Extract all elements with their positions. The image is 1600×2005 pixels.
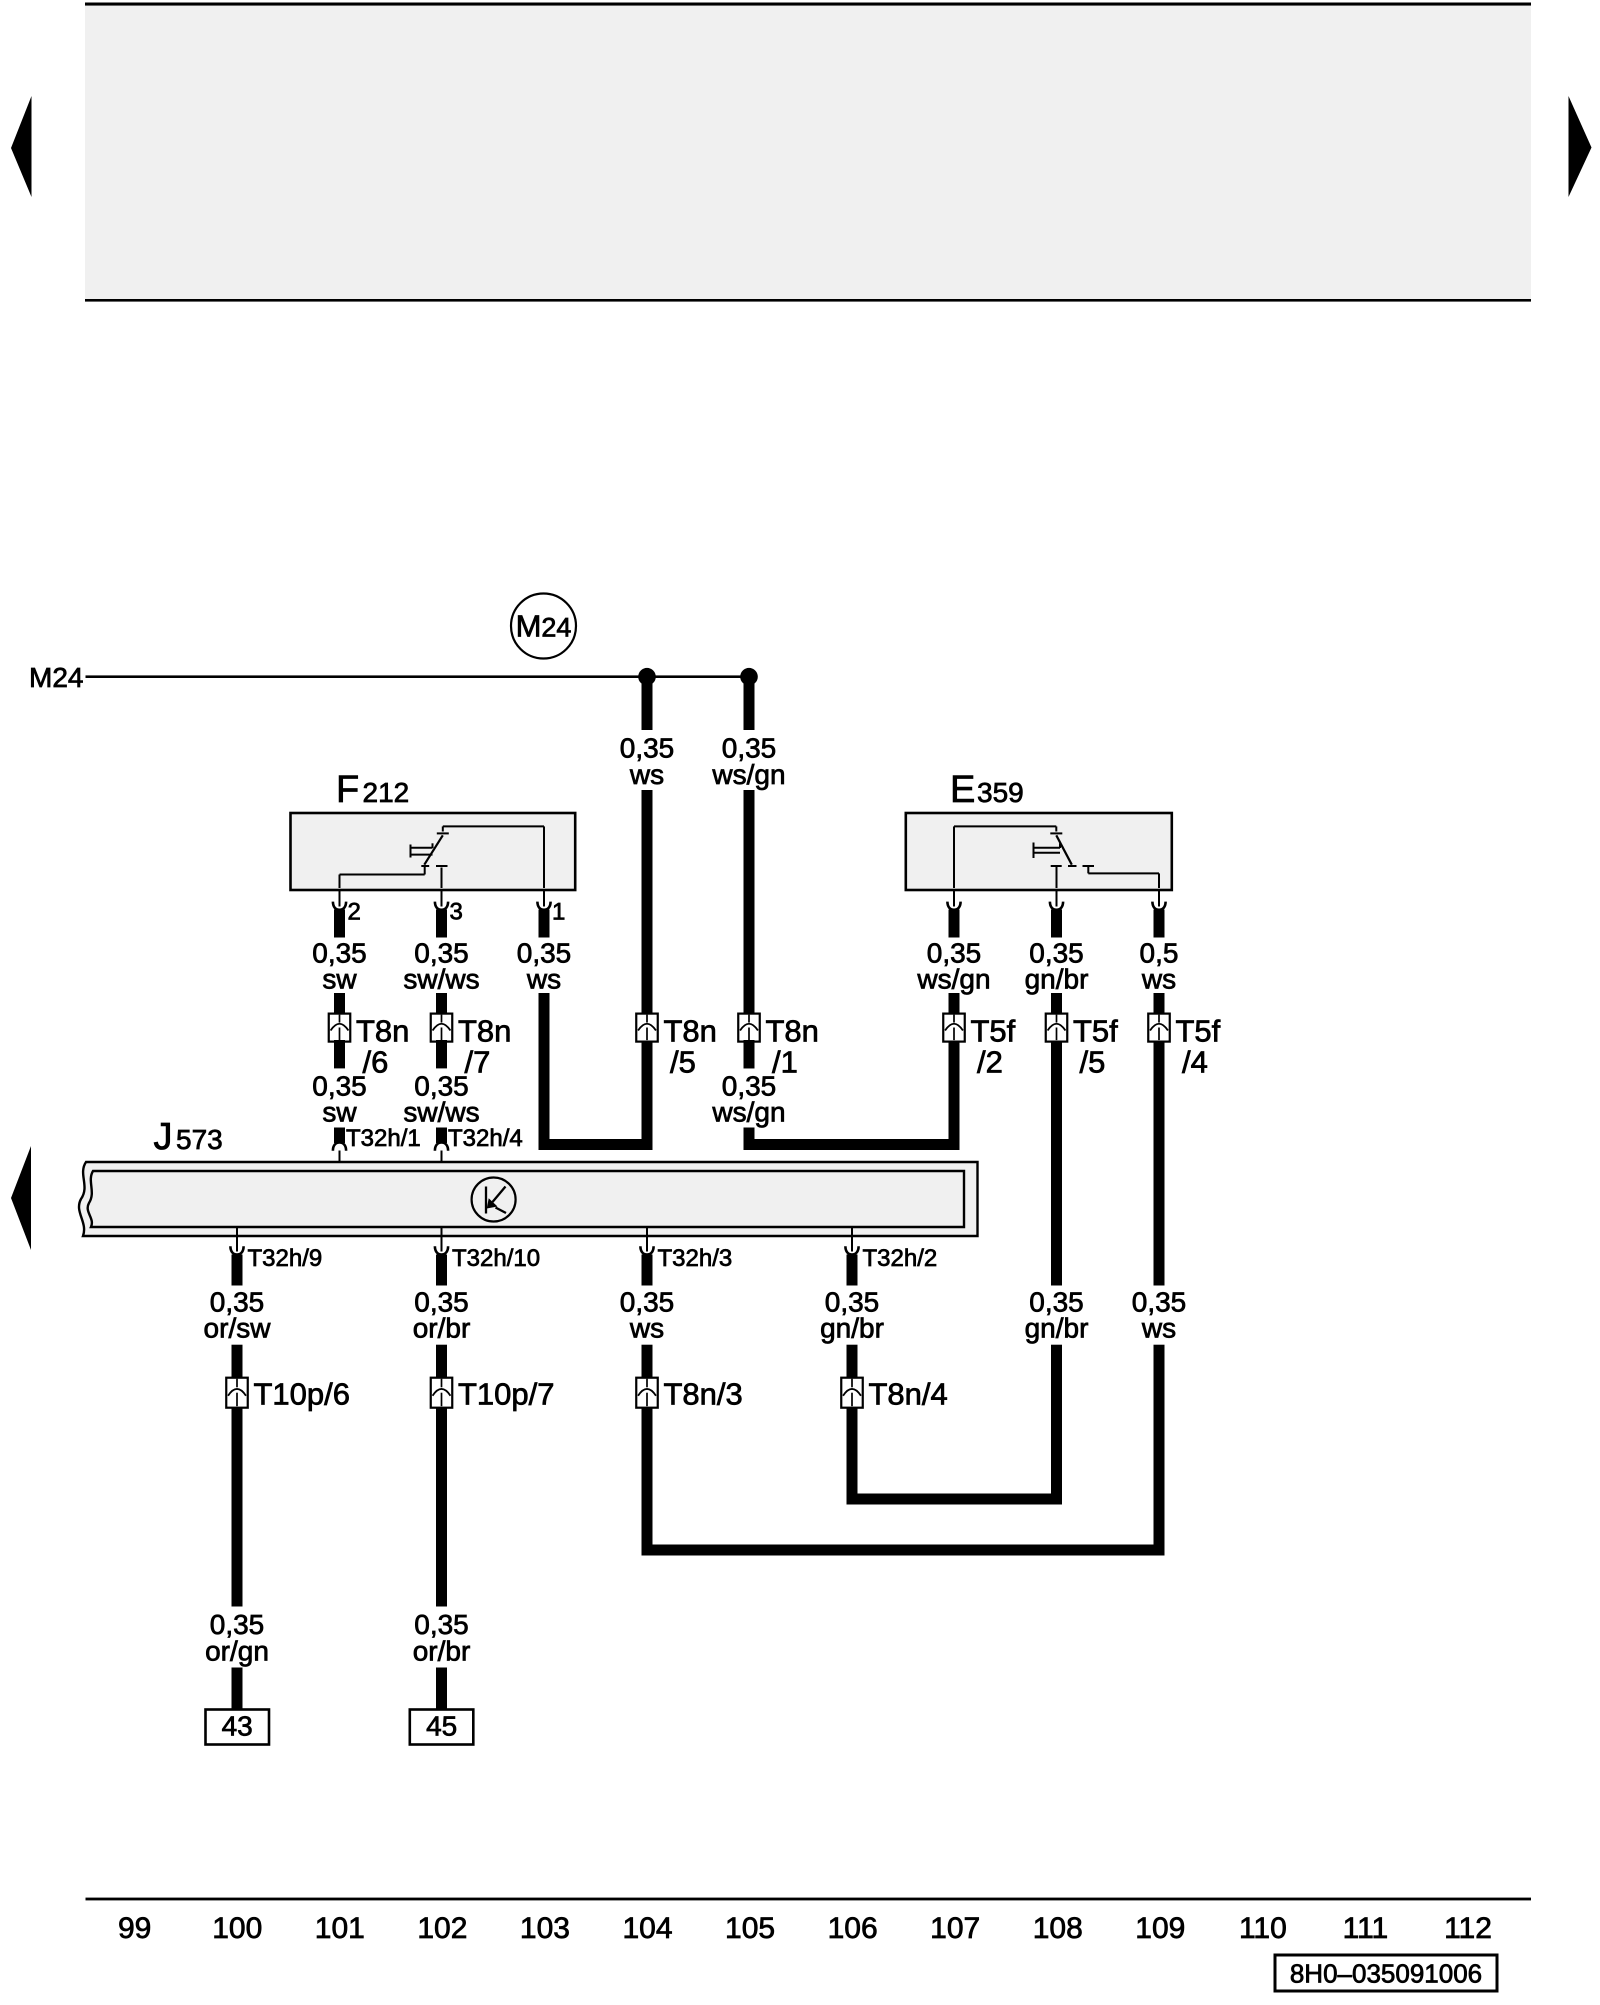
wire M24 horizontal bus — [86, 675, 750, 678]
diagram number box 8H0-035091006 — [1275, 1955, 1497, 1991]
connector T5f/5 — [1046, 1013, 1118, 1079]
wire elbow ws/gn col105-col107 — [744, 1139, 960, 1150]
svg-text:sw/ws: sw/ws — [403, 1097, 479, 1128]
page-turn arrow right (top) — [1569, 96, 1592, 197]
wire gn/br col 108 to elbow — [1051, 1345, 1062, 1505]
svg-text:/2: /2 — [977, 1044, 1003, 1079]
svg-text:ws/gn: ws/gn — [711, 1097, 785, 1128]
wire sw stub below F212/2 — [334, 910, 345, 938]
pin label T32h/10 — [452, 1245, 540, 1272]
wire gn/br to T8n/4 — [847, 1345, 858, 1378]
svg-text:1: 1 — [552, 899, 565, 926]
wire label 0,35 sw/ws (above J573) — [403, 1071, 479, 1128]
pin T32h/3 — [646, 1227, 648, 1252]
wire ws col 103 down to elbow — [539, 993, 550, 1150]
pin label T32h/9 — [248, 1245, 323, 1272]
wire label 0,35 gn/br (below J573) — [820, 1287, 884, 1344]
terminal clip at T32h/9 — [230, 1246, 243, 1254]
wire label 0,35 or/br (lower) — [413, 1609, 471, 1667]
wire ws stub below F212/1 — [539, 910, 550, 938]
wire label 0,35 ws (col 109 lower) — [1132, 1287, 1187, 1344]
terminal clip at T32h/2 — [845, 1246, 858, 1254]
svg-text:T32h/10: T32h/10 — [452, 1245, 540, 1272]
svg-text:J: J — [154, 1116, 173, 1158]
svg-text:ws: ws — [526, 964, 561, 995]
wire ws to T8n/3 — [642, 1345, 653, 1378]
svg-text:T5f: T5f — [971, 1013, 1016, 1048]
wire or/br to terminal 45 — [436, 1668, 447, 1712]
connector T8n/5 — [636, 1013, 717, 1079]
svg-text:/4: /4 — [1182, 1044, 1208, 1079]
svg-text:T8n/4: T8n/4 — [869, 1377, 948, 1412]
svg-text:T32h/1: T32h/1 — [346, 1125, 421, 1152]
svg-text:or/gn: or/gn — [205, 1636, 269, 1667]
pin E359 middle — [1056, 889, 1058, 907]
svg-text:ws/gn: ws/gn — [711, 759, 785, 790]
wire label 0,35 gn/br (below E359 mid) — [1025, 938, 1089, 995]
connector T8n/3 — [636, 1377, 743, 1412]
wire label 0,35 ws/gn (col 105) — [711, 733, 785, 791]
svg-text:T10p/7: T10p/7 — [458, 1377, 555, 1412]
svg-text:573: 573 — [176, 1124, 223, 1155]
pin T32h/9 — [236, 1227, 238, 1252]
terminal clip at T32h/10 — [435, 1246, 448, 1254]
svg-text:T8n: T8n — [458, 1013, 511, 1048]
control unit J573 body (inner) — [88, 1171, 964, 1227]
connector T8n/4 — [841, 1377, 948, 1412]
svg-text:M24: M24 — [29, 662, 83, 693]
wire sw/ws stub below F212/3 — [436, 910, 447, 938]
svg-text:gn/br: gn/br — [820, 1313, 884, 1344]
wire gn/br col 108 long run — [1051, 993, 1062, 1286]
svg-text:ws: ws — [629, 759, 664, 790]
svg-text:103: 103 — [520, 1912, 570, 1945]
wire gn/br stub below E359 middle pin — [1051, 910, 1062, 938]
wire label 0,35 gn/br (col 108 lower) — [1025, 1287, 1089, 1344]
wire ws col 109 long run — [1154, 993, 1165, 1286]
track grid baseline — [86, 1898, 1532, 1901]
label J573 — [154, 1116, 223, 1158]
wire label 0,5 ws (below E359 right) — [1140, 938, 1179, 995]
svg-text:M24: M24 — [516, 609, 572, 644]
wire label 0,35 or/br (upper) — [413, 1287, 471, 1344]
label E359 — [950, 769, 1024, 811]
svg-text:105: 105 — [725, 1912, 775, 1945]
connector T8n/6 — [329, 1013, 410, 1079]
terminal clip at T32h/4 — [435, 1143, 448, 1151]
wire label 0,35 or/gn — [205, 1609, 269, 1667]
svg-text:107: 107 — [930, 1912, 980, 1945]
page-turn arrow left (top) — [11, 96, 32, 197]
svg-text:sw: sw — [322, 964, 357, 995]
svg-text:111: 111 — [1343, 1912, 1389, 1945]
wire gn/br below T8n/4 — [847, 1407, 858, 1505]
wire sw to T32h/1 — [334, 1128, 345, 1144]
wire ws/gn stub below E359 left pin — [949, 910, 960, 938]
wire label 0,35 ws (below J573) — [620, 1287, 675, 1344]
wire ws from M24 dot (col 104, upper) — [642, 681, 653, 730]
wire label 0,35 ws (col 104) — [620, 733, 675, 791]
svg-text:gn/br: gn/br — [1025, 964, 1089, 995]
connector T5f/2 — [943, 1013, 1015, 1079]
connector T8n/1 — [738, 1013, 819, 1079]
wire sw/ws below T8n/7 — [436, 1040, 447, 1068]
terminal clip at T32h/3 — [640, 1246, 653, 1254]
wire ws col 109 to elbow — [1154, 1345, 1165, 1556]
pin label T32h/2 — [863, 1245, 938, 1272]
wire ws col 104 down to elbow — [642, 790, 653, 1150]
svg-text:102: 102 — [417, 1912, 467, 1945]
svg-text:ws: ws — [1141, 1313, 1176, 1344]
svg-text:T10p/6: T10p/6 — [254, 1377, 351, 1412]
page-turn arrow left (middle) — [11, 1146, 31, 1250]
svg-text:99: 99 — [118, 1912, 151, 1945]
wire or/sw to T10p/6 — [232, 1345, 243, 1378]
svg-text:T32h/3: T32h/3 — [658, 1245, 733, 1272]
connector T8n/7 — [431, 1013, 512, 1079]
svg-text:T8n: T8n — [356, 1013, 409, 1048]
svg-text:110: 110 — [1239, 1912, 1287, 1945]
svg-text:8H0–035091006: 8H0–035091006 — [1290, 1959, 1482, 1989]
control unit J573 body (outer, torn left edge) — [79, 1162, 978, 1236]
pin E359 left — [953, 889, 955, 907]
page header panel — [85, 3, 1531, 302]
wire or/br to T10p/7 — [436, 1345, 447, 1378]
svg-text:T8n: T8n — [664, 1013, 717, 1048]
wire ws/gn col 105 to elbow — [744, 1128, 755, 1151]
pin label T32h/4 — [448, 1125, 523, 1152]
wire or/gn to terminal 43 — [232, 1668, 243, 1712]
wire or/br below T10p/7 — [436, 1407, 447, 1607]
terminal clip at E359/2 — [1050, 902, 1063, 910]
wire sw/ws col 102 to T8n/7 — [436, 993, 447, 1016]
svg-text:106: 106 — [828, 1912, 878, 1945]
terminal clip at T32h/1 — [333, 1143, 346, 1151]
terminal clip at F212/2 — [333, 902, 346, 910]
svg-text:T32h/4: T32h/4 — [448, 1125, 523, 1152]
svg-text:112: 112 — [1444, 1912, 1492, 1945]
wire ws stub below E359 right pin — [1154, 910, 1165, 938]
wire label 0,35 sw (below F212/2) — [312, 938, 367, 995]
wire elbow ws col104-col109 — [642, 1545, 1165, 1556]
svg-text:T5f: T5f — [1176, 1013, 1221, 1048]
svg-text:ws: ws — [1141, 964, 1176, 995]
svg-text:gn/br: gn/br — [1025, 1313, 1089, 1344]
pin T32h/4 — [441, 1151, 443, 1173]
terminal 43 box — [206, 1710, 270, 1745]
connector T10p/6 — [226, 1377, 350, 1412]
wire sw/ws to T32h/4 — [436, 1128, 447, 1144]
wire elbow ws col103-col104 — [539, 1139, 653, 1150]
terminal clip at F212/3 — [435, 902, 448, 910]
pin E359 right — [1158, 889, 1160, 907]
svg-text:359: 359 — [977, 777, 1024, 808]
svg-text:101: 101 — [315, 1912, 365, 1945]
wire label 0,35 or/sw — [204, 1287, 272, 1344]
svg-text:sw/ws: sw/ws — [403, 964, 479, 995]
pin T32h/2 — [851, 1227, 853, 1252]
connector T10p/7 — [431, 1377, 555, 1412]
wire gn/br stub below T32h/2 — [847, 1255, 858, 1286]
pin F212/2 — [339, 889, 341, 907]
terminal 45 box — [410, 1710, 474, 1745]
wire label 0,35 ws/gn (above J573) — [711, 1071, 785, 1128]
track numbers 99-112 — [118, 1912, 1492, 1945]
node label M24 (left margin) — [29, 662, 83, 693]
wire ws/gn col 105 middle — [744, 790, 755, 1068]
svg-text:or/br: or/br — [413, 1636, 471, 1667]
svg-text:2: 2 — [348, 899, 361, 926]
svg-text:T32h/9: T32h/9 — [248, 1245, 323, 1272]
diagnostic K symbol in J573 — [472, 1178, 516, 1222]
junction dot M24/ws — [638, 668, 656, 686]
terminal clip at E359/3 — [1152, 902, 1165, 910]
svg-text:100: 100 — [212, 1912, 262, 1945]
wire label 0,35 ws/gn (below E359) — [916, 938, 990, 995]
svg-text:T32h/2: T32h/2 — [863, 1245, 938, 1272]
svg-text:T8n/3: T8n/3 — [664, 1377, 743, 1412]
pin F212/3 — [441, 889, 443, 907]
svg-text:3: 3 — [450, 899, 463, 926]
svg-text:45: 45 — [426, 1711, 457, 1742]
switch F212 contact mechanism — [340, 826, 545, 888]
svg-text:/5: /5 — [670, 1044, 696, 1079]
pin T32h/1 — [339, 1151, 341, 1173]
svg-text:T8n: T8n — [766, 1013, 819, 1048]
svg-text:ws/gn: ws/gn — [916, 964, 990, 995]
pin number 1 (F212) — [552, 899, 565, 926]
wire or/br stub below T32h/10 — [436, 1255, 447, 1286]
motor symbol M24 circle — [511, 594, 576, 659]
wire label 0,35 sw (above J573) — [312, 1071, 367, 1128]
pin label T32h/1 — [346, 1125, 421, 1152]
pin label T32h/3 — [658, 1245, 733, 1272]
wire ws/gn from M24 dot (col 105, upper) — [744, 681, 755, 730]
wire elbow gn/br col106-col108 — [847, 1494, 1063, 1505]
svg-text:sw: sw — [322, 1097, 357, 1128]
svg-text:T5f: T5f — [1073, 1013, 1118, 1048]
svg-text:or/br: or/br — [413, 1313, 471, 1344]
wire or/gn below T10p/6 — [232, 1407, 243, 1607]
pin number 2 (F212) — [348, 899, 361, 926]
pin F212/1 — [543, 889, 545, 907]
label F212 — [336, 769, 409, 811]
wire ws stub below T32h/3 — [642, 1255, 653, 1286]
switch F212 body — [291, 813, 576, 890]
wire ws/gn col 107 down to elbow — [949, 993, 960, 1150]
svg-text:/5: /5 — [1080, 1044, 1106, 1079]
svg-text:or/sw: or/sw — [204, 1313, 272, 1344]
svg-text:104: 104 — [622, 1912, 672, 1945]
pin T32h/10 — [441, 1227, 443, 1252]
svg-text:212: 212 — [363, 777, 410, 808]
junction dot M24/ws-gn — [740, 668, 758, 686]
svg-text:F: F — [336, 769, 359, 811]
terminal clip at E359/1 — [947, 902, 960, 910]
svg-text:43: 43 — [222, 1711, 253, 1742]
wire sw col 101 to T8n/6 — [334, 993, 345, 1016]
svg-text:109: 109 — [1135, 1912, 1185, 1945]
wire sw below T8n/6 — [334, 1040, 345, 1068]
svg-text:ws: ws — [629, 1313, 664, 1344]
switch E359 contact mechanism — [954, 826, 1159, 888]
wire or/sw stub below T32h/9 — [232, 1255, 243, 1286]
pin number 3 (F212) — [450, 899, 463, 926]
svg-text:108: 108 — [1033, 1912, 1083, 1945]
connector T5f/4 — [1148, 1013, 1220, 1079]
wire label 0,35 ws (below F212/1) — [517, 938, 572, 995]
wire label 0,35 sw/ws (below F212/3) — [403, 938, 479, 995]
wire ws/gn below T8n/1 — [744, 1040, 755, 1068]
terminal clip at F212/1 — [537, 902, 550, 910]
svg-text:E: E — [950, 769, 975, 811]
switch E359 body — [906, 813, 1172, 890]
wire ws below T8n/3 — [642, 1407, 653, 1556]
